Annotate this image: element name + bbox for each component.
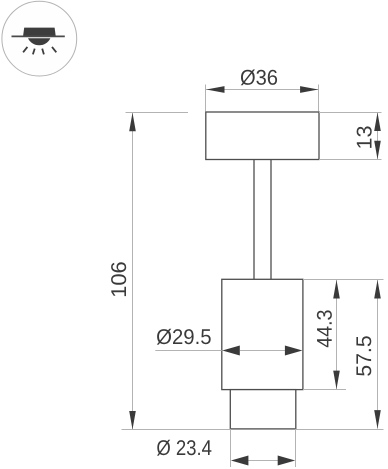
icon ray left inner bbox=[33, 49, 35, 55]
dimension D23.4 extension line right bbox=[295, 429, 297, 467]
dimension 44.3 label bbox=[317, 310, 332, 347]
dimension D36 extension line right bbox=[318, 85, 320, 112]
dimension 44.3 extension line top bbox=[303, 279, 384, 281]
dimension 13 extension line top bbox=[319, 112, 382, 114]
dimension 106 label bbox=[111, 262, 126, 296]
dimension 13 arrow down bbox=[374, 141, 381, 160]
dimension 13 extension line bottom bbox=[319, 159, 382, 161]
fixture flange outline bbox=[206, 112, 319, 160]
dimension D23.4 extension line left bbox=[230, 429, 232, 467]
dimension 44.3 line bbox=[336, 280, 338, 389]
icon circle bbox=[2, 1, 77, 76]
dimension D23.4 arrow left bbox=[231, 456, 249, 466]
dimension 106 extension line top bbox=[126, 112, 189, 114]
dimension D36 arrow left bbox=[206, 86, 224, 93]
dimension D23.4 arrow right bbox=[278, 456, 296, 466]
dimension D23.4 label bbox=[157, 440, 211, 456]
dimension D36 arrow right bbox=[300, 86, 318, 93]
dimension 13 line bbox=[377, 113, 379, 160]
dimension 44.3 arrow up bbox=[333, 280, 340, 299]
dimension 57.5 extension line bottom bbox=[296, 429, 384, 431]
fixture stem left wall bbox=[253, 160, 255, 280]
icon ray right inner bbox=[42, 49, 44, 55]
icon lamp dome bbox=[28, 38, 50, 45]
dimension D29.5 label bbox=[157, 329, 211, 345]
dimension 13 arrow up bbox=[374, 113, 381, 132]
icon ceiling line bbox=[12, 35, 65, 37]
dimension D36 line bbox=[206, 89, 319, 91]
dimension D23.4 line bbox=[248, 460, 278, 462]
dimension 44.3 extension line bottom bbox=[303, 389, 346, 391]
dimension 57.5 line bbox=[377, 280, 379, 429]
dimension 106 line bbox=[132, 113, 134, 430]
dimension 106 arrow down bbox=[129, 411, 136, 430]
fixture body outline bbox=[222, 279, 303, 389]
dimension D29.5 inner line bbox=[240, 350, 285, 352]
dimension 57.5 arrow up bbox=[374, 280, 381, 299]
dimension 106 extension line bottom bbox=[122, 429, 231, 431]
dimension 13 label bbox=[357, 126, 372, 147]
icon ray left outer bbox=[23, 47, 27, 52]
dimension 57.5 label bbox=[356, 336, 371, 376]
dimension D36 label bbox=[241, 70, 277, 86]
icon ray right outer bbox=[52, 47, 56, 52]
fixture bottom trim outline bbox=[230, 390, 295, 429]
dimension D29.5 arrow left bbox=[222, 346, 240, 356]
dimension 106 arrow up bbox=[129, 113, 136, 132]
dimension D29.5 arrow right bbox=[285, 346, 303, 356]
icon fixture box bbox=[23, 28, 56, 36]
dimension D36 extension line left bbox=[205, 85, 207, 112]
dimension 44.3 arrow down bbox=[333, 371, 340, 390]
dimension 57.5 arrow down bbox=[374, 410, 381, 429]
fixture stem right wall bbox=[270, 160, 272, 280]
dimension D29.5 leader line bbox=[155, 350, 222, 352]
